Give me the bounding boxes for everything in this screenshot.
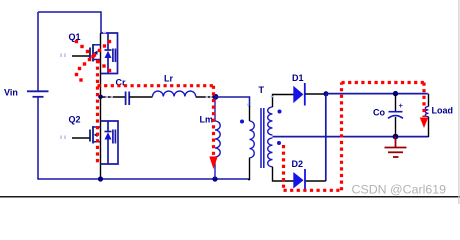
inductor Lm [215, 97, 220, 179]
wire half-bridge vertical (black) [100, 33, 102, 179]
node (Lm bottom) [212, 176, 217, 181]
node secondary upper polarity dot [278, 110, 282, 114]
wire rectifier output vertical [325, 94, 327, 181]
node B (Lm top) [213, 94, 219, 100]
wire load bottom [428, 117, 430, 137]
node A (half-bridge midpoint) [98, 95, 103, 100]
wire Cr to Lr [129, 96, 152, 98]
current path output left vertical [340, 83, 343, 191]
current path X over Q1 [75, 40, 111, 82]
transformer T primary winding [250, 121, 255, 158]
svg-text:Lr: Lr [164, 74, 173, 84]
svg-text:D2: D2 [292, 159, 304, 169]
current path load down [422, 83, 425, 118]
bottom divider line [0, 196, 460, 198]
svg-text:Co: Co [373, 108, 385, 118]
wire secondary top lead [273, 95, 294, 108]
current path secondary bottom [284, 189, 342, 192]
wire Lr to node [196, 96, 215, 98]
right border line [458, 0, 460, 204]
node primary polarity dot [240, 120, 244, 124]
wire node B to transformer primary [215, 97, 250, 107]
transistor Q1 [72, 33, 118, 74]
wire top rail [38, 11, 101, 13]
transistor Q2 [72, 121, 118, 164]
ground [385, 137, 407, 157]
wire bottom rail [37, 178, 249, 180]
svg-text:Load: Load [432, 106, 454, 116]
transformer secondary lower winding [268, 138, 273, 167]
svg-text:D1: D1 [292, 73, 304, 83]
diode D1 [293, 83, 305, 106]
node secondary lower polarity dot [277, 141, 281, 145]
wire left rail lower [37, 97, 39, 179]
transformer core [261, 108, 264, 168]
resistor Load [425, 107, 428, 117]
svg-text:+: + [399, 101, 404, 110]
svg-text:CSDN @Carl619: CSDN @Carl619 [352, 183, 447, 197]
svg-text:Q2: Q2 [69, 115, 81, 125]
inductor Lr [153, 91, 196, 96]
capacitor Cr [126, 92, 130, 106]
current arrow Lm [209, 157, 217, 170]
capacitor Co [388, 112, 403, 119]
node Co bottom [393, 134, 399, 140]
svg-text:Q1: Q1 [69, 32, 81, 42]
current path secondary from winding [282, 145, 285, 190]
battery Vin [27, 91, 49, 97]
wire secondary bottom lead [273, 167, 294, 181]
current path primary vertical [96, 60, 99, 164]
current path Lm down [212, 86, 215, 156]
artifact marks (light blue) [61, 33, 273, 140]
node D1 output [324, 91, 329, 96]
svg-text:Lm: Lm [200, 115, 214, 125]
node (Q2 source on rail) [98, 176, 103, 181]
svg-text:Vin: Vin [4, 88, 18, 98]
wire D2 cathode [306, 180, 326, 182]
wire Q1 drain from top rail [100, 11, 102, 33]
wire D1 cathode to node [306, 93, 327, 95]
current arrow load [420, 118, 428, 129]
wire output mid rail (center tap) [273, 136, 429, 138]
wire load branch [428, 94, 430, 107]
wire Co top lead [395, 94, 397, 111]
current path resonant loop top [98, 84, 214, 87]
wire output top rail [326, 93, 428, 95]
node Co top [393, 91, 398, 96]
current path output top [342, 81, 425, 84]
diode D2 [293, 169, 305, 190]
wire Co bottom lead [395, 117, 397, 137]
wire primary bottom to rail [248, 158, 250, 180]
svg-text:T: T [259, 85, 265, 95]
wire left rail upper [37, 12, 39, 91]
transformer secondary upper winding [268, 107, 273, 135]
wire midpoint to Cr [101, 96, 126, 98]
